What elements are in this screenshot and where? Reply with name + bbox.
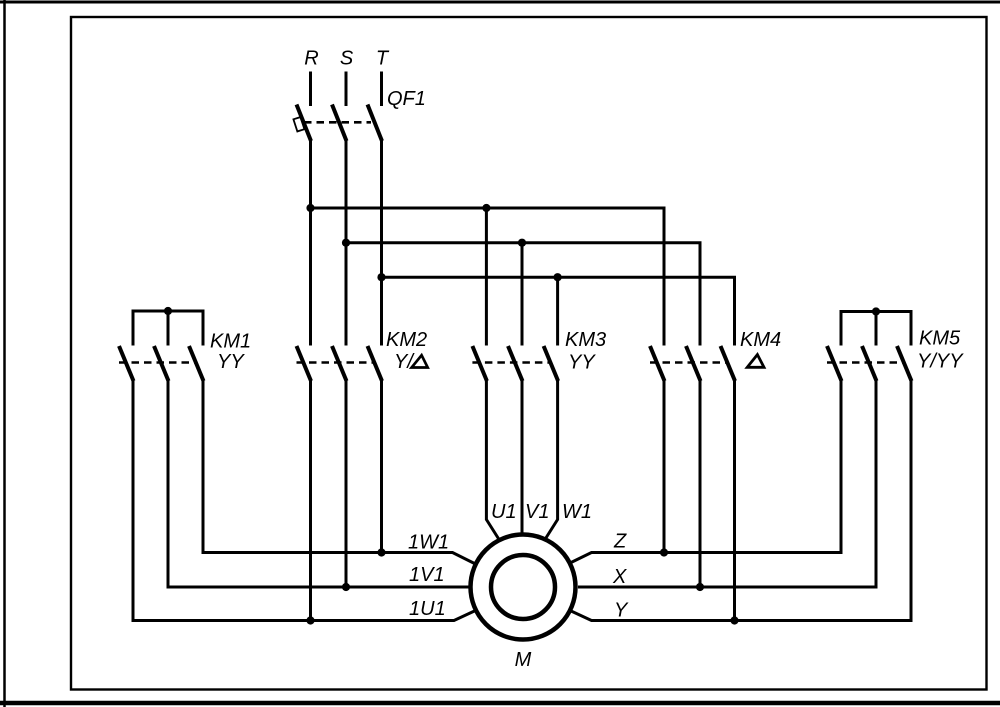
breaker QF1 pole S blade (332, 105, 347, 142)
junction bus2-S (342, 239, 350, 247)
wire phase R down to KM2 pole 1 (309, 139, 312, 346)
junction bus3-T (377, 273, 385, 281)
svg-text:Y: Y (614, 600, 629, 622)
svg-text:KM3: KM3 (565, 329, 606, 351)
outer frame bottom (0, 701, 1000, 706)
svg-text:Z: Z (613, 531, 627, 553)
contactor KM5 middle pole riser (875, 312, 878, 346)
contactor KM5 blade 3 (897, 346, 912, 381)
wire bus 2 drop to KM3 pole 2 (521, 243, 524, 346)
wire bus 3 drop to KM3 pole 3 (556, 277, 559, 345)
svg-text:Y/: Y/ (394, 351, 415, 373)
svg-text:U1: U1 (491, 501, 517, 523)
junction 1W1-KM2 (377, 548, 385, 556)
wire KM2 pole 2 down to 1V1 (345, 380, 348, 587)
breaker QF1 latch square (293, 117, 304, 131)
outer frame left (3, 0, 6, 707)
contactor KM4 blade 2 (686, 346, 701, 381)
wire KM5 pole 2 to node X line and motor (578, 380, 876, 587)
svg-text:KM1: KM1 (210, 331, 251, 353)
svg-text:W1: W1 (562, 501, 592, 523)
contactor KM4 blade 3 (721, 346, 736, 381)
junction Z-KM4 (660, 548, 668, 556)
motor M stator circle (471, 535, 576, 640)
svg-text:T: T (376, 48, 390, 70)
wire KM3 pole 2 to motor V1 (521, 380, 524, 535)
contactor KM4 linkage dashed (650, 361, 727, 364)
svg-text:1U1: 1U1 (409, 598, 446, 620)
svg-text:M: M (515, 649, 532, 671)
contactor KM1 blade 3 (189, 346, 204, 381)
contactor KM5 linkage dashed (827, 361, 904, 364)
label KM4 delta triangle (747, 355, 764, 368)
wire KM5 pole 3 to node Y line and motor (570, 380, 911, 621)
wire bus 2 from S to KM4 pole 2 (345, 243, 701, 346)
contactor KM5 blade 2 (862, 346, 877, 381)
svg-text:QF1: QF1 (387, 88, 426, 110)
wire S lead-in (345, 72, 348, 107)
wire KM2 pole 1 down to 1U1 (309, 380, 312, 621)
wire KM1 pole 2 to node 1V1 line (168, 380, 469, 587)
wire KM4 pole 1 down to Z (663, 380, 666, 553)
junction bus2-KM3 (518, 239, 526, 247)
contactor KM2 linkage dashed (297, 361, 375, 364)
junction 1V1-KM2 (342, 583, 350, 591)
wire bus 3 from T to KM4 pole 3 (380, 277, 735, 345)
junction X-KM4 (696, 583, 704, 591)
wire KM4 pole 2 down to X (699, 380, 702, 587)
wire KM4 pole 3 down to Y (733, 380, 736, 621)
svg-text:1W1: 1W1 (408, 532, 449, 554)
wire KM2 pole 3 down to 1W1 (380, 380, 383, 553)
contactor KM1 linkage dashed (119, 361, 196, 364)
junction KM1 bar (164, 307, 172, 315)
svg-text:X: X (612, 566, 627, 588)
wire KM5 pole 1 to node Z line and motor (570, 380, 841, 563)
wire bus 1 drop to KM3 pole 1 (485, 208, 488, 346)
wire phase S down to KM2 pole 2 (345, 139, 348, 346)
svg-text:Y/YY: Y/YY (917, 351, 964, 373)
contactor KM2 blade 3 (368, 346, 383, 381)
contactor KM1 blade 2 (154, 346, 169, 381)
contactor KM3 blade 3 (544, 346, 559, 381)
contactor KM3 blade 1 (472, 346, 487, 381)
svg-text:YY: YY (568, 352, 596, 374)
svg-text:KM2: KM2 (386, 329, 427, 351)
junction bus3-KM3 (554, 273, 562, 281)
contactor KM3 blade 2 (508, 346, 523, 381)
wire R lead-in (309, 72, 312, 107)
contactor KM3 linkage dashed (472, 361, 550, 364)
wire bus 1 from R to KM4 pole 1 (309, 208, 664, 346)
junction bus1-R (306, 204, 314, 212)
contactor KM1 blade 1 (119, 346, 134, 381)
contactor KM5 blade 1 (827, 346, 842, 381)
wire KM3 pole 1 to motor U1 (486, 380, 500, 541)
contactor KM2 blade 2 (332, 346, 347, 381)
contactor KM4 blade 1 (650, 346, 665, 381)
contactor KM1 middle pole riser (167, 311, 170, 346)
svg-text:KM5: KM5 (919, 328, 961, 350)
svg-text:1V1: 1V1 (409, 564, 445, 586)
contactor KM2 blade 1 (297, 346, 312, 381)
svg-text:S: S (340, 48, 354, 70)
svg-text:R: R (304, 48, 318, 70)
breaker QF1 pole R blade (297, 105, 312, 142)
contactor KM5 shorting bar (841, 312, 911, 346)
wire KM3 pole 3 to motor W1 (544, 380, 558, 541)
junction 1U1-KM2 (306, 616, 314, 624)
wire KM1 pole 1 to node 1U1 line (133, 380, 476, 621)
junction Y-KM4 (730, 616, 738, 624)
svg-text:YY: YY (217, 351, 245, 373)
contactor KM1 shorting bar (133, 311, 203, 346)
junction KM5 bar (872, 307, 880, 315)
breaker QF1 pole T blade (368, 105, 383, 142)
junction bus1-KM3 (482, 204, 490, 212)
wire phase T down to KM2 pole 3 (380, 139, 383, 346)
wire T lead-in (380, 72, 383, 107)
svg-text:KM4: KM4 (740, 329, 781, 351)
outer frame top (0, 1, 1000, 4)
motor M rotor circle (491, 555, 555, 619)
svg-text:V1: V1 (525, 501, 549, 523)
breaker QF1 linkage dashed (304, 121, 371, 124)
wire KM1 pole 3 to node 1W1 line (203, 380, 475, 564)
label KM2 delta triangle (412, 355, 428, 367)
